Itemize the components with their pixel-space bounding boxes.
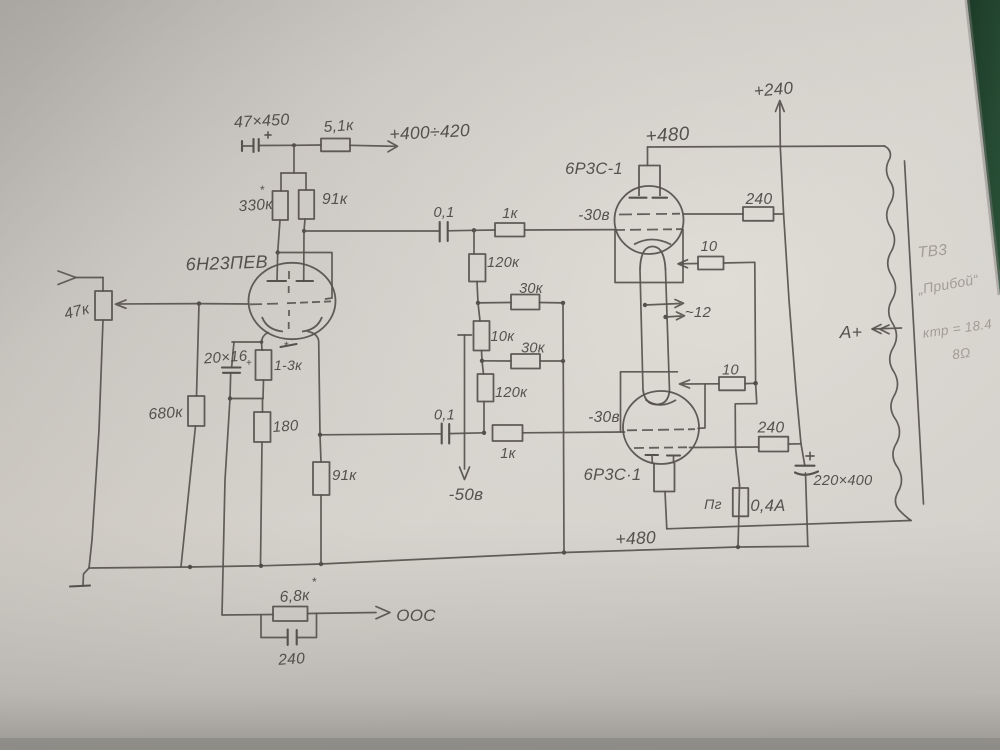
svg-text:ООС: ООС [396, 606, 436, 625]
node: 10k/120k junction lower [480, 351, 484, 363]
V3 socket rectangle [621, 372, 706, 432]
node: lower coupling junction [482, 431, 486, 435]
resistor 1k lower [493, 425, 523, 462]
resistor 91k lower [313, 435, 357, 564]
heater supply taps ~12 [643, 300, 712, 322]
svg-text:1к: 1к [502, 206, 518, 222]
svg-text:+: + [246, 358, 252, 369]
svg-text:*: * [260, 183, 265, 197]
wire: 5,1k to +400 arrow [350, 141, 398, 152]
svg-text:+240: +240 [753, 78, 794, 100]
resistor 10 lower [680, 363, 756, 391]
wire: wiper arrow to grid line [116, 300, 200, 308]
wire: +480 bottom line [667, 521, 911, 529]
svg-text:Пг: Пг [704, 496, 722, 512]
node: 120k/30k junction upper [476, 301, 480, 305]
wire: 0,1 to 1k node [448, 229, 474, 232]
wire: 1k to V2 grid [525, 229, 615, 231]
capacitor 220x400 [795, 452, 872, 546]
svg-text:10к: 10к [491, 329, 516, 345]
node: grid/680k junction [197, 301, 201, 305]
V1 grid dashed line [250, 301, 331, 304]
svg-text:*: * [284, 339, 289, 353]
heater leg right [666, 270, 670, 391]
V3 cathode arc [646, 400, 677, 405]
wire: cathode node to 0,1 lower [320, 434, 442, 435]
wire: V2 cathode arrow to 10 [678, 260, 698, 268]
svg-text:30к: 30к [519, 281, 544, 297]
+240 rail [780, 104, 805, 466]
svg-text:0,4А: 0,4А [750, 497, 785, 515]
svg-text:30к: 30к [521, 341, 546, 357]
V2 anode cap box [630, 147, 668, 198]
tetrode V3 6R3S-1 envelope [623, 391, 699, 464]
wire: 30k common line to bus [563, 303, 564, 553]
wire: +480 top line to transformer [648, 146, 885, 147]
svg-text:6,8к: 6,8к [279, 587, 311, 606]
resistor 120k lower [478, 361, 529, 433]
svg-text:*: * [312, 575, 317, 589]
resistor 180 [254, 399, 299, 566]
+240 supply arrow [753, 78, 794, 111]
resistor 30k upper [478, 281, 563, 310]
svg-text:-50в: -50в [449, 485, 484, 504]
V2 heater loop top [640, 247, 666, 271]
svg-text:6Н23ПЕВ: 6Н23ПЕВ [185, 252, 268, 275]
svg-text:+480: +480 [615, 527, 657, 549]
junction: 680k/bus [188, 565, 192, 569]
svg-text:6Р3С-1: 6Р3С-1 [565, 160, 623, 178]
fuse Pg 0,4A [704, 485, 785, 547]
svg-text:47×450: 47×450 [234, 112, 290, 132]
capacitor 20x16 [202, 347, 252, 398]
resistor 1-3k [256, 339, 304, 399]
wire: V1 right cathode lead down [308, 332, 320, 435]
resistor 1k upper [474, 206, 525, 237]
node: 30k/common line upper [561, 301, 565, 305]
wire: input stub bar of filter cap [242, 141, 253, 151]
svg-text:120к: 120к [487, 255, 520, 271]
capacitor 240 (feedback) [261, 613, 317, 669]
resistor 30k lower [482, 341, 563, 369]
V3 heater loop bottom [643, 390, 670, 405]
wire: rail to fuse [735, 383, 757, 485]
svg-text:10: 10 [722, 363, 739, 379]
ground bar [70, 586, 90, 587]
V3 screen grid dashes [634, 446, 687, 449]
wire: coupling to 0,1 cap [304, 230, 439, 232]
ground end hook [83, 568, 89, 585]
svg-text:10: 10 [701, 239, 718, 255]
transformer core line [905, 161, 924, 504]
wire: V1 left cathode lead [262, 333, 269, 351]
node: V1 right cathode node [318, 433, 322, 437]
wire: pot bottom to ground bus [89, 320, 103, 568]
input terminal chevron [58, 271, 103, 291]
node: 91k / coupling junction [302, 229, 306, 233]
V3 control grid dashes [627, 429, 695, 430]
svg-text:5,1к: 5,1к [323, 117, 355, 136]
capacitor 47x450 [234, 112, 290, 152]
svg-text:240: 240 [745, 191, 773, 208]
A+ center tap arrow [839, 322, 902, 342]
node: 1k/120k junction upper [472, 228, 476, 232]
heater leg left [640, 270, 643, 390]
wire: node down to split bar [281, 145, 306, 191]
svg-text:ТВ3: ТВ3 [917, 242, 948, 262]
resistor 120k upper [469, 230, 520, 303]
svg-text:0,1: 0,1 [433, 205, 454, 221]
potentiometer 47k [62, 291, 112, 323]
svg-text:+400÷420: +400÷420 [389, 120, 471, 144]
green table corner top-right [967, 0, 1000, 295]
node: cathode rail junction [753, 381, 758, 386]
junction: fuse/bus [736, 545, 740, 549]
V2 socket rectangle [615, 230, 683, 283]
wire: cap to +400 node [259, 144, 294, 146]
wire: hook from left plate to right grid [278, 253, 332, 300]
potentiometer 10k [474, 303, 516, 351]
tetrode V2 6R3S-1 envelope [615, 186, 684, 254]
resistor 330k [238, 183, 288, 253]
svg-text:120к: 120к [495, 385, 528, 401]
V1 plate bars [268, 253, 314, 282]
resistor 5,1k [321, 117, 355, 151]
resistor 91k upper [299, 190, 348, 231]
wire: 6,8k to OOC arrow [308, 607, 391, 619]
node: V1 left plate node [276, 250, 280, 254]
svg-text:6Р3С·1: 6Р3С·1 [584, 466, 642, 484]
resistor 6,8k [273, 575, 317, 621]
svg-text:+480: +480 [645, 123, 690, 147]
svg-text:20×16: 20×16 [202, 347, 248, 367]
V3 beam plate bars [646, 455, 681, 463]
svg-text:~12: ~12 [685, 304, 712, 321]
V3 anode box [654, 463, 675, 529]
junction: 180/bus [259, 564, 263, 568]
svg-text:240: 240 [757, 420, 785, 437]
svg-text:-30в: -30в [578, 207, 610, 224]
svg-text:330к: 330к [238, 196, 274, 215]
svg-text:680к: 680к [148, 404, 184, 423]
resistor 10 upper [698, 239, 724, 270]
V2 cathode arc [634, 240, 671, 245]
wire: V3 screen to 240 lower [690, 446, 759, 449]
svg-text:-30в: -30в [588, 409, 620, 426]
junction: 91k/bus [319, 562, 323, 566]
triode V1 6N23P envelope [249, 263, 336, 339]
wire: V2 screen to 240 [684, 213, 744, 215]
svg-text:240: 240 [277, 650, 306, 669]
V2 control grid dashes [616, 228, 683, 231]
svg-text:8Ω: 8Ω [951, 345, 971, 362]
capacitor 0,1 lower [434, 408, 455, 444]
svg-text:1к: 1к [500, 446, 516, 462]
wire: node to resistor 5,1k [294, 144, 321, 146]
svg-text:220×400: 220×400 [813, 473, 873, 489]
svg-text:91к: 91к [332, 467, 357, 484]
svg-text:180: 180 [272, 417, 299, 436]
node: 30k/common line lower [561, 359, 565, 363]
capacitor 0,1 upper [433, 205, 454, 242]
node: cathode/cap join [260, 340, 264, 344]
bottom edge darkening [0, 738, 1000, 750]
V1 bottom electrode bar [281, 344, 297, 347]
resistor 680k [148, 304, 205, 567]
svg-text:91к: 91к [322, 191, 348, 208]
transformer TVZ primary winding (wavy) [885, 146, 912, 521]
svg-text:1-3к: 1-3к [274, 357, 303, 373]
svg-text:0,1: 0,1 [434, 408, 455, 424]
resistor 240 upper [743, 191, 784, 221]
wire: grid line to V1 [199, 303, 249, 305]
wire: cathode to cap 20x16 [232, 342, 262, 367]
wire: 1k lower to V3 grid [523, 431, 625, 434]
wire: 10k wiper bar to -50v [458, 335, 472, 480]
wire: 0,1 lower to node [449, 432, 484, 435]
ground bus wire [89, 546, 809, 568]
V1 cathode arcs [262, 317, 322, 332]
wire: 91k junction down to right plate [303, 231, 305, 281]
V1 separator dashed vertical [288, 271, 290, 329]
resistor 240 lower [757, 420, 801, 452]
junction: 30k line/bus [562, 550, 566, 554]
node: +400 junction [292, 143, 296, 147]
wire: 10 upper to cathode rail [724, 262, 756, 383]
V2 screen grid dashes [619, 213, 680, 216]
svg-text:А+: А+ [839, 322, 863, 342]
wire: cathode node down to OOC network [222, 399, 273, 616]
node: cathode network node [228, 396, 263, 400]
